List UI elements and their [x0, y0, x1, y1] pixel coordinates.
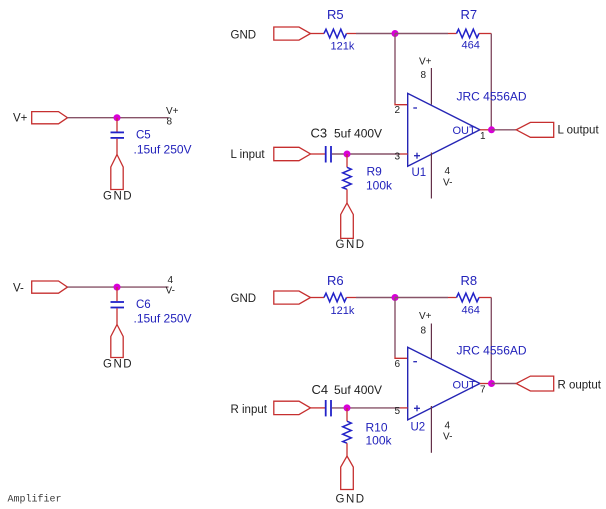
junction feedback node L	[392, 30, 399, 37]
svg-text:R input: R input	[231, 404, 268, 416]
wire R8 left lead	[448, 297, 457, 299]
svg-text:OUT: OUT	[453, 125, 477, 137]
capacitor C5	[111, 118, 125, 155]
label 464 (R8)	[462, 304, 480, 316]
resistor R9	[343, 154, 352, 203]
pin number 1	[480, 131, 486, 142]
label 121k (R6)	[331, 305, 355, 317]
junction on V- rail	[114, 284, 121, 291]
wire Rin to C4	[311, 407, 326, 409]
wire output column vertical R	[490, 298, 492, 384]
capacitor C3	[326, 146, 331, 163]
svg-text:L output: L output	[558, 124, 600, 136]
junction R input node	[344, 404, 351, 411]
junction R output node	[488, 380, 495, 387]
label C5 value	[134, 130, 192, 157]
label R5	[327, 7, 344, 22]
pin label 4 V- of U2	[443, 421, 452, 443]
connector J-Lout	[516, 122, 554, 137]
wire feedback vertical	[394, 34, 396, 104]
svg-text:R8: R8	[461, 273, 478, 288]
svg-text:OUT: OUT	[453, 380, 477, 392]
wire to L output connector	[492, 129, 517, 131]
svg-text:8: 8	[167, 117, 173, 128]
svg-text:JRC 4556AD: JRC 4556AD	[457, 90, 527, 104]
pin V+ of U1	[430, 68, 432, 105]
label 100k (R10)	[366, 434, 393, 448]
node R input label	[231, 404, 268, 416]
svg-text:R10: R10	[366, 421, 388, 435]
wire feedback into pin 2	[395, 103, 408, 105]
resistor R10	[343, 408, 352, 456]
svg-text:GND: GND	[231, 29, 257, 41]
wire R7 right lead	[479, 33, 491, 35]
svg-text:V-: V-	[443, 432, 452, 443]
resistor R5	[324, 29, 347, 38]
svg-text:8: 8	[421, 70, 427, 81]
label R10	[366, 421, 388, 435]
wire to R output connector	[492, 383, 517, 385]
resistor R7	[457, 29, 480, 38]
svg-text:C3: C3	[311, 126, 328, 141]
svg-text:4: 4	[445, 421, 451, 432]
node R ouptut label	[558, 380, 602, 392]
svg-text:GND: GND	[336, 494, 366, 506]
pin label V+ 8 of U2	[419, 311, 432, 337]
wire feedback into pin 6	[395, 357, 408, 359]
svg-text:1: 1	[480, 131, 486, 142]
connector J-V+	[32, 112, 68, 124]
node L output label	[558, 124, 600, 136]
node V- label	[13, 282, 24, 294]
svg-text:V-: V-	[166, 286, 175, 297]
wire R6 lead	[347, 297, 357, 299]
svg-text:GND: GND	[231, 293, 257, 305]
label R9	[367, 165, 383, 179]
svg-text:.15uf 250V: .15uf 250V	[134, 312, 192, 326]
connector J-GND-R	[274, 291, 311, 304]
svg-text:5uf 400V: 5uf 400V	[334, 383, 382, 397]
wire R8 right lead	[479, 297, 491, 299]
node V+ label	[13, 113, 28, 125]
svg-text:100k: 100k	[366, 434, 393, 448]
pin number 7	[480, 385, 486, 396]
pin label 4 / V-	[166, 275, 175, 297]
node GND label (L)	[231, 29, 257, 41]
capacitor C6	[111, 287, 125, 324]
svg-text:GND: GND	[103, 191, 133, 203]
svg-text:100k: 100k	[366, 179, 393, 193]
svg-text:V-: V-	[443, 178, 452, 189]
wire V+ rail	[68, 117, 169, 119]
svg-text:R6: R6	[327, 273, 344, 288]
svg-text:4: 4	[168, 275, 174, 286]
svg-text:R5: R5	[327, 7, 344, 22]
wire to R6	[311, 297, 325, 299]
label C3	[311, 126, 328, 141]
pin stub into pin 3	[400, 153, 408, 155]
wire Lin to C3	[311, 153, 326, 155]
connector J-Rin	[274, 401, 311, 414]
pin number 2	[395, 105, 401, 116]
svg-text:C6: C6	[136, 299, 151, 311]
pin V- of U2	[430, 406, 432, 453]
wire C3 to pin 3	[332, 153, 400, 155]
svg-text:V-: V-	[13, 282, 24, 294]
svg-text:L input: L input	[231, 149, 266, 161]
svg-text:GND: GND	[336, 239, 366, 251]
svg-text:8: 8	[421, 326, 427, 337]
svg-text:121k: 121k	[331, 305, 355, 317]
title Amplifier	[8, 494, 62, 506]
wire U2 out stub	[480, 383, 492, 385]
label 5uf 400V (C3)	[334, 127, 382, 141]
connector J-Rout	[516, 376, 554, 391]
wire V- rail	[68, 286, 169, 288]
resistor R6	[324, 293, 347, 302]
pin V+ of U2	[430, 324, 432, 359]
svg-text:U1: U1	[412, 167, 427, 179]
ground GND3	[336, 203, 366, 251]
svg-text:JRC 4556AD: JRC 4556AD	[457, 344, 527, 358]
svg-text:V+: V+	[419, 311, 432, 322]
wire C4 to pin 5	[332, 407, 400, 409]
svg-text:GND: GND	[103, 359, 133, 371]
svg-text:2: 2	[395, 105, 401, 116]
pin number 5	[395, 406, 401, 417]
wire junction to R7	[395, 33, 448, 35]
connector J-Lin	[274, 147, 311, 160]
op-amp U1	[408, 93, 480, 179]
wire R6 to junction	[356, 297, 395, 299]
pin label V+ 8 of U1	[419, 57, 432, 82]
svg-text:V+: V+	[13, 113, 28, 125]
wire to R5	[311, 33, 325, 35]
label R6	[327, 273, 344, 288]
label JRC 4556AD (U2)	[457, 344, 527, 358]
svg-text:R7: R7	[461, 7, 478, 22]
node GND label (R)	[231, 293, 257, 305]
capacitor C4	[326, 400, 331, 416]
wire junction to R8	[395, 297, 448, 299]
svg-text:4: 4	[445, 166, 451, 177]
pin label V+ / 8	[166, 106, 179, 128]
junction L input node	[344, 151, 351, 158]
connector J-V-	[32, 281, 68, 293]
svg-text:464: 464	[462, 304, 480, 316]
pin number 6	[395, 359, 401, 370]
junction L output node	[488, 126, 495, 133]
label 5uf 400V (C4)	[334, 383, 382, 397]
ground GND4	[336, 456, 366, 506]
label 464	[462, 40, 480, 52]
pin stub into pin 5	[400, 407, 408, 409]
label JRC 4556AD (U1)	[457, 90, 527, 104]
label C4	[312, 382, 329, 397]
wire R5 lead	[347, 33, 357, 35]
label R7	[461, 7, 478, 22]
ground GND2	[103, 325, 133, 371]
svg-text:121k: 121k	[331, 40, 355, 52]
wire feedback vertical R	[394, 298, 396, 357]
svg-text:464: 464	[462, 40, 480, 52]
wire U1 out stub	[480, 129, 492, 131]
svg-text:C5: C5	[136, 130, 151, 142]
ground GND1	[103, 155, 133, 203]
wire output column vertical	[490, 34, 492, 130]
svg-text:U2: U2	[411, 422, 426, 434]
label 100k	[366, 179, 393, 193]
svg-text:C4: C4	[312, 382, 329, 397]
label C6 value	[134, 299, 192, 326]
label R8	[461, 273, 478, 288]
svg-text:6: 6	[395, 359, 401, 370]
resistor R8	[457, 293, 480, 302]
junction on V+ rail	[114, 114, 121, 121]
pin V- of U1	[430, 153, 432, 199]
svg-text:3: 3	[395, 152, 401, 163]
pin number 3	[395, 152, 401, 163]
svg-text:R9: R9	[367, 165, 383, 179]
svg-text:V+: V+	[419, 57, 432, 68]
svg-text:5uf 400V: 5uf 400V	[334, 127, 382, 141]
connector J-GND-L	[274, 27, 311, 40]
wire R5 to junction	[356, 33, 395, 35]
pin label 4 V- of U1	[443, 166, 452, 189]
node L input label	[231, 149, 266, 161]
svg-text:Amplifier: Amplifier	[8, 494, 62, 506]
svg-text:5: 5	[395, 406, 401, 417]
junction feedback node R	[392, 294, 399, 301]
svg-text:7: 7	[480, 385, 486, 396]
wire R7 left lead	[448, 33, 457, 35]
svg-text:R ouptut: R ouptut	[558, 380, 602, 392]
op-amp U2	[408, 347, 480, 433]
svg-text:V+: V+	[166, 106, 179, 117]
label 121k	[331, 40, 355, 52]
svg-text:.15uf 250V: .15uf 250V	[134, 143, 192, 157]
